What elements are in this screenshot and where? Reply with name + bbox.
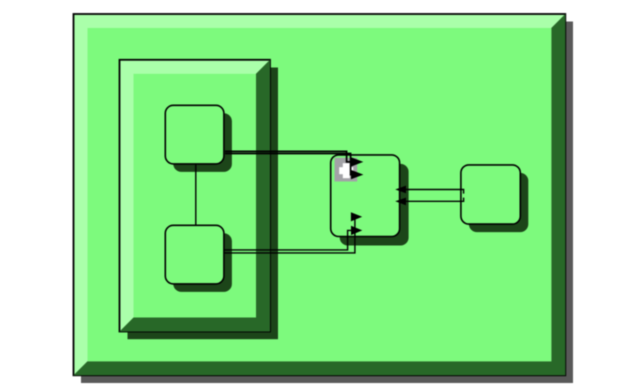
block A shadow xyxy=(173,113,232,172)
outer frame bevel light xyxy=(74,14,566,375)
wire 3: B to middle input 4 xyxy=(224,230,352,250)
plus icon grey box xyxy=(335,158,358,182)
inner panel drop shadow xyxy=(128,68,279,340)
block B xyxy=(165,225,224,284)
arrow input 3 xyxy=(351,212,362,221)
arrow input 4 xyxy=(351,226,362,235)
arrow right input 2 xyxy=(395,198,406,206)
wire 4: B to middle input 3 xyxy=(224,217,355,253)
arrow input 2 xyxy=(351,170,363,179)
arrow input 1 xyxy=(351,157,363,166)
wire 1: A to middle input 1 xyxy=(225,151,352,162)
plus icon white cross xyxy=(339,167,353,174)
inner panel bevel dark xyxy=(120,60,271,332)
inner panel bevel light xyxy=(120,60,271,332)
right block xyxy=(461,165,520,224)
wire 5: right block to middle right input 1 xyxy=(406,190,464,194)
middle block shadow xyxy=(340,164,409,246)
middle block xyxy=(331,155,400,237)
arrow right input 1 xyxy=(395,186,406,194)
outer frame fill xyxy=(88,28,552,361)
outer frame bevel dark xyxy=(74,14,566,375)
outer frame drop shadow xyxy=(81,22,573,384)
wire A to B xyxy=(195,164,197,225)
block A xyxy=(165,105,224,164)
right block shadow xyxy=(469,173,528,232)
wire 2: A to middle input 2 xyxy=(225,154,352,175)
block B shadow xyxy=(173,233,232,292)
inner panel fill xyxy=(134,74,257,318)
wire 6: right block to middle right input 2 xyxy=(406,198,464,202)
